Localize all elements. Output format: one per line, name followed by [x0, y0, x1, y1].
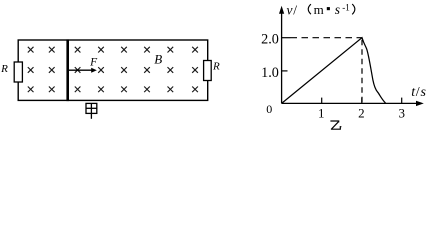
- label R (right resistor): [212, 60, 220, 72]
- x axis with arrow: [282, 101, 424, 106]
- svg-text:m: m: [314, 2, 324, 17]
- svg-text:F: F: [89, 56, 98, 68]
- tick t=2: [361, 98, 363, 104]
- label F: [89, 56, 98, 68]
- svg-text:3: 3: [399, 105, 406, 120]
- label 1 on t axis: [318, 105, 325, 120]
- label B: magnetic field: [154, 52, 162, 67]
- label R (left resistor): [0, 63, 8, 75]
- y axis with arrow: [279, 6, 284, 104]
- curve: velocity-time graph: [282, 38, 386, 104]
- label: Chinese character jia (figure 1): [86, 103, 97, 118]
- svg-text:2.0: 2.0: [261, 32, 279, 48]
- svg-text:v: v: [287, 2, 293, 17]
- resistor R2 (right): [204, 61, 212, 81]
- svg-text:R: R: [212, 60, 220, 72]
- svg-text:/: /: [293, 2, 297, 17]
- svg-text:B: B: [154, 52, 162, 67]
- label 3 on t axis: [399, 105, 406, 120]
- dashed guide line horizontal at v=2.0: [291, 37, 363, 39]
- label: Chinese character yi (figure 2): [330, 121, 341, 129]
- tick t=3: [401, 98, 403, 104]
- svg-text:1: 1: [318, 105, 325, 120]
- label: t/s axis title: [411, 85, 426, 100]
- dashed guide line vertical at t=2: [361, 40, 363, 104]
- svg-text:1.0: 1.0: [261, 65, 279, 81]
- node: magnetic field x marks (right of rod): [75, 47, 198, 92]
- arrow: force F on rod: [69, 68, 97, 73]
- svg-text:s: s: [335, 2, 340, 17]
- svg-text:R: R: [0, 63, 8, 75]
- tick t=1: [321, 98, 323, 104]
- svg-text:s: s: [421, 85, 427, 100]
- resistor R1 (left): [14, 62, 22, 82]
- label 2 on t axis: [358, 105, 365, 120]
- svg-text:/: /: [416, 85, 420, 100]
- tick and label 2.0 on y axis: [261, 32, 290, 48]
- tick and label 1.0 on y axis: [261, 65, 287, 81]
- svg-text:0: 0: [266, 102, 272, 116]
- node: magnetic field x marks (left of rod): [28, 47, 55, 92]
- label: v/(m*s^-1) axis title: [287, 2, 355, 17]
- conducting rod: [66, 39, 69, 101]
- svg-text:2: 2: [358, 105, 365, 120]
- label 0 at origin: [266, 102, 272, 116]
- svg-text:-1: -1: [342, 2, 350, 12]
- wire: rail loop rectangle: [18, 40, 208, 100]
